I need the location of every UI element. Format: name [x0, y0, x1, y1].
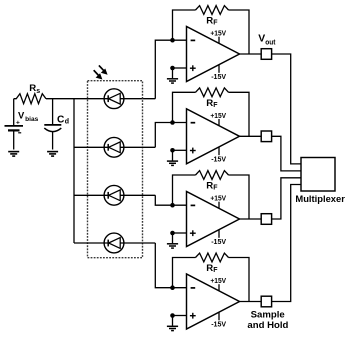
wire: photodiode row 4: [74, 242, 155, 244]
resistor RF1: [196, 6, 229, 15]
output pad square (row 3): [261, 214, 271, 225]
resistor RF3: [196, 171, 229, 180]
label RF (U4): [206, 263, 218, 274]
svg-text:+15V: +15V: [210, 276, 226, 285]
svg-text:-15V: -15V: [211, 155, 226, 164]
svg-text:-15V: -15V: [211, 237, 226, 246]
wire: row 4 to op-amp U4 inverting input: [155, 243, 186, 288]
wire: photodiode row 2: [74, 146, 155, 148]
wire: row 3 to multiplexer: [272, 178, 301, 219]
op-amp U4: [187, 274, 240, 329]
svg-text:R: R: [206, 16, 213, 27]
svg-text:+: +: [16, 120, 20, 127]
label Sample and Hold: [247, 310, 288, 331]
svg-text:+15V: +15V: [210, 194, 226, 203]
ground (U1 + input): [167, 68, 178, 83]
multiplexer box: [301, 158, 335, 192]
capacitor Cd: [44, 125, 61, 132]
label -15V (U1): [211, 65, 226, 81]
svg-text:-15V: -15V: [211, 72, 226, 81]
wire: Cd to ground: [52, 131, 54, 149]
output pad square (row 4): [261, 296, 271, 307]
label Multiplexer: [295, 194, 345, 205]
ground (U3 + input): [167, 233, 178, 248]
svg-text:Multiplexer: Multiplexer: [295, 194, 345, 205]
label -15V (U4): [211, 312, 226, 328]
label Cd: [57, 114, 69, 125]
op-amp U1: [187, 27, 240, 82]
wire: Vbias to ground: [13, 130, 15, 149]
wire: node from Rs to photodiode row 1: [46, 98, 155, 100]
label -15V (U3): [211, 230, 226, 246]
svg-text:+15V: +15V: [210, 29, 226, 38]
photodiode D3: [104, 185, 124, 205]
junction dot: U2 non-inverting input: [170, 148, 175, 153]
label RF (U1): [206, 16, 218, 27]
feedback wire U1: [173, 10, 250, 54]
svg-text:F: F: [213, 185, 218, 192]
label Rs: [29, 83, 40, 95]
label +15V (U3): [210, 194, 226, 209]
junction dot: U3 inverting input: [170, 203, 175, 208]
wire: row 2 to multiplexer: [272, 136, 301, 171]
wire: row 2 to op-amp U2 inverting input: [155, 123, 186, 148]
ground (U4 + input): [167, 316, 178, 331]
photodiode D2: [104, 137, 124, 157]
label -15V (U2): [211, 147, 226, 163]
svg-text:C: C: [57, 114, 65, 125]
wire: bias bus vertical: [73, 99, 75, 243]
ground (Cd): [47, 152, 58, 157]
wire: row 4 to multiplexer: [272, 185, 301, 302]
junction dot: U3 non-inverting input: [170, 231, 175, 236]
label +15V (U4): [210, 276, 226, 291]
wire: U1 non-inverting input: [173, 67, 187, 69]
svg-text:V: V: [258, 34, 265, 45]
junction dot: U4 inverting input: [170, 285, 175, 290]
svg-text:out: out: [265, 39, 276, 46]
wire: photodiode row 3: [74, 194, 155, 196]
label +15V (U2): [210, 111, 226, 126]
svg-text:F: F: [213, 102, 218, 109]
svg-text:s: s: [36, 88, 40, 95]
svg-text:F: F: [213, 267, 218, 274]
light arrow 1: [99, 65, 108, 74]
ground (U2 + input): [167, 150, 178, 165]
svg-text:bias: bias: [25, 116, 39, 123]
label RF (U2): [206, 98, 218, 109]
wire: U2 output: [240, 135, 262, 137]
svg-text:F: F: [213, 20, 218, 27]
wire: U4 non-inverting input: [173, 315, 187, 317]
photodiode array dashed box: [88, 81, 143, 258]
wire: U4 output: [240, 301, 262, 303]
svg-text:R: R: [206, 263, 213, 274]
light arrow 2: [94, 70, 103, 79]
wire: U3 non-inverting input: [173, 232, 187, 234]
svg-text:R: R: [206, 98, 213, 109]
resistor RF2: [196, 88, 229, 97]
label Vout: [258, 34, 276, 47]
junction dot: U1 inverting input: [170, 38, 175, 43]
ground (Vbias): [8, 152, 19, 157]
battery Vbias: [5, 120, 24, 133]
feedback wire U4: [173, 258, 250, 302]
svg-text:R: R: [29, 83, 36, 94]
label Vbias: [18, 109, 39, 122]
wire: U3 output: [240, 218, 262, 220]
svg-text:+15V: +15V: [210, 111, 226, 120]
photodiode D1: [104, 89, 124, 109]
feedback wire U2: [173, 92, 250, 136]
wire: Vbias left lead: [13, 99, 15, 126]
label RF (U3): [206, 181, 218, 192]
wire: U2 non-inverting input: [173, 149, 187, 151]
wire: Cd top lead: [52, 99, 54, 125]
wire: row 3 to op-amp U3 inverting input: [155, 195, 186, 205]
wire: row 1 to multiplexer: [272, 54, 301, 164]
svg-text:R: R: [206, 181, 213, 192]
label +15V (U1): [210, 29, 226, 44]
svg-text:d: d: [65, 119, 69, 126]
resistor Rs: [14, 94, 46, 104]
svg-text:V: V: [18, 109, 25, 120]
op-amp U2: [187, 109, 240, 164]
wire: U1 output: [240, 53, 262, 55]
op-amp U3: [187, 192, 240, 247]
junction dot: U4 non-inverting input: [170, 313, 175, 318]
wire: row 1 to op-amp U1 inverting input: [155, 40, 186, 98]
svg-text:and Hold: and Hold: [247, 320, 288, 331]
output pad square (row 2): [261, 131, 271, 142]
junction dot: U1 non-inverting input: [170, 66, 175, 71]
feedback wire U3: [173, 175, 250, 219]
junction dot: U2 inverting input: [170, 120, 175, 125]
photodiode D4: [104, 233, 124, 253]
svg-text:-15V: -15V: [211, 320, 226, 329]
output pad square (row 1): [261, 49, 271, 60]
resistor RF4: [196, 253, 229, 262]
